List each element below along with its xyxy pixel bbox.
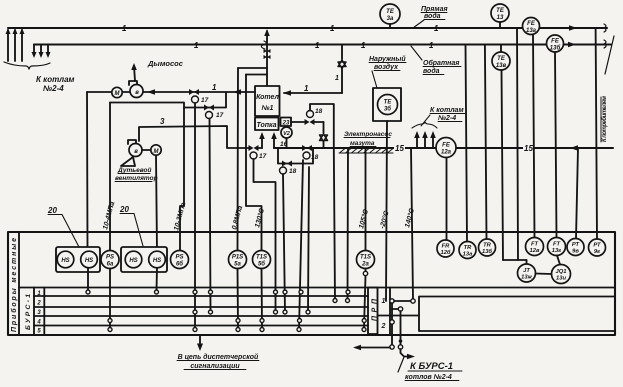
- svg-text:РТ: РТ: [572, 242, 580, 248]
- svg-text:JQ1: JQ1: [556, 269, 567, 275]
- instrument TR 13б: [479, 239, 496, 256]
- svg-text:9г: 9г: [594, 249, 600, 255]
- svg-text:FЕ: FЕ: [442, 143, 451, 149]
- boiler riser to line1: [266, 31, 268, 86]
- instrument T1S 5б: [253, 251, 271, 269]
- valve on boiler riser: [264, 49, 271, 53]
- svg-text:FR: FR: [442, 244, 451, 250]
- label 1 on line 1: [122, 24, 439, 33]
- instrument PS 6а: [101, 251, 119, 269]
- furnace Топка: [255, 118, 279, 131]
- svg-text:13и: 13и: [556, 276, 566, 282]
- instrument T1S 2а: [357, 251, 375, 269]
- wire 18в actuator to rows: [299, 160, 303, 330]
- motor M of smoke exhauster: [112, 87, 122, 97]
- instrument JT 13ж: [518, 264, 536, 282]
- svg-text:5: 5: [37, 329, 41, 335]
- svg-text:3а: 3а: [387, 16, 394, 22]
- svg-text:ТЕ: ТЕ: [384, 100, 393, 106]
- fuel temp tap 140°C to PRP: [411, 148, 413, 299]
- svg-text:Дымосос: Дымосос: [147, 59, 184, 68]
- svg-text:Дутьевой: Дутьевой: [117, 166, 151, 174]
- svg-text:1: 1: [212, 83, 217, 92]
- svg-text:1: 1: [429, 41, 434, 50]
- wire bypass to row3: [308, 167, 309, 312]
- svg-text:БУРС-1: БУРС-1: [25, 294, 32, 330]
- svg-text:В цепь диспетчерской: В цепь диспетчерской: [178, 353, 259, 361]
- svg-text:15: 15: [524, 144, 533, 153]
- svg-text:JТ: JТ: [523, 268, 530, 274]
- svg-text:V2: V2: [283, 131, 290, 137]
- svg-text:13б: 13б: [550, 45, 561, 52]
- label Прямая вода: [421, 6, 448, 20]
- svg-text:1: 1: [335, 75, 339, 82]
- svg-text:Т1S: Т1S: [360, 255, 371, 261]
- row wires: [44, 295, 368, 297]
- svg-text:1: 1: [382, 298, 386, 305]
- check valve gas: [323, 122, 325, 133]
- gas pipe with valve 18б: [291, 121, 304, 123]
- svg-text:2: 2: [381, 323, 386, 330]
- label Электронасос мазута: [344, 131, 392, 147]
- svg-text:вода: вода: [423, 67, 440, 75]
- svg-text:6а: 6а: [107, 262, 114, 268]
- label 20 first: [47, 206, 57, 215]
- svg-text:20: 20: [47, 206, 57, 215]
- svg-text:13в: 13в: [496, 63, 507, 69]
- blower motor M: [151, 145, 161, 155]
- valve 17в: [249, 145, 259, 151]
- label 16: [280, 141, 288, 148]
- svg-text:Наружный: Наружный: [369, 55, 406, 63]
- svg-text:10-4МПа: 10-4МПа: [102, 201, 116, 231]
- svg-text:13г: 13г: [552, 248, 562, 254]
- exhaust stack arrow: [134, 66, 135, 81]
- wire HS to row1: [87, 268, 89, 290]
- lower right box: [419, 297, 615, 332]
- svg-text:РТ: РТ: [593, 243, 601, 249]
- riser line2 to TR13б: [485, 45, 487, 240]
- svg-text:мазута: мазута: [350, 140, 375, 147]
- wire valve17в actuator to rows: [254, 159, 276, 312]
- PRP regulator box: [368, 288, 378, 335]
- svg-text:Р1S: Р1S: [232, 255, 243, 261]
- svg-text:3б: 3б: [384, 106, 391, 113]
- wire FT13г to JQ1: [557, 256, 560, 265]
- svg-text:1: 1: [194, 41, 199, 50]
- svg-text:5а: 5а: [234, 262, 241, 268]
- instrument FR 12б: [437, 240, 454, 257]
- svg-text:20: 20: [119, 205, 129, 214]
- svg-text:№2-4: №2-4: [43, 84, 64, 93]
- fuel tap wire to rows1-2: [347, 148, 350, 301]
- label 20 second: [119, 205, 129, 214]
- svg-text:1: 1: [304, 84, 309, 93]
- svg-text:№1: №1: [261, 105, 274, 112]
- label Приборы местные (vertical): [10, 238, 18, 332]
- dispatcher signal arrow: [199, 335, 201, 347]
- riser line2 to TR13а: [466, 45, 468, 242]
- svg-text:Прямая: Прямая: [421, 6, 448, 13]
- instrument TE 3а: [380, 4, 400, 24]
- arrow right end line2: [568, 42, 576, 48]
- pressure tap 10-3 МПа: [180, 108, 184, 251]
- svg-text:17: 17: [259, 153, 267, 160]
- svg-text:в: в: [134, 149, 138, 155]
- wire duct corner to HS: [86, 92, 89, 251]
- svg-text:12а: 12а: [441, 150, 452, 156]
- wire line 1 (direct water main): [8, 27, 607, 29]
- label К потребителям (vertical): [601, 95, 608, 142]
- svg-text:К потребителям: К потребителям: [601, 95, 608, 142]
- instrument FT 12в: [526, 238, 544, 256]
- valve 17а on duct: [189, 89, 199, 95]
- svg-text:К БУРС-1: К БУРС-1: [410, 361, 453, 372]
- svg-text:котлов №2-4: котлов №2-4: [405, 374, 452, 381]
- svg-text:12б: 12б: [440, 249, 450, 256]
- label Обратная вода: [423, 59, 459, 75]
- PRP output nodes: [390, 299, 394, 303]
- wire line 2 (return water main): [34, 43, 611, 45]
- instrument P1S 5а: [229, 251, 247, 269]
- label БУРС-1 (vertical): [25, 294, 32, 330]
- svg-text:13б: 13б: [482, 248, 492, 255]
- instrument TE 13в: [500, 45, 502, 53]
- instrument JQ1 13и: [552, 265, 571, 284]
- label Дымосос: [147, 59, 184, 68]
- label Дутьевой вентилятор: [115, 166, 158, 182]
- instrument FE 13а: [523, 18, 540, 35]
- brace к котлам: [4, 62, 50, 69]
- riser into furnace: [273, 136, 275, 148]
- instrument FT 13г: [548, 238, 566, 256]
- cell numbers 1-5: [36, 291, 41, 335]
- svg-text:18: 18: [289, 168, 297, 175]
- svg-text:ТR: ТR: [464, 245, 473, 251]
- instrument TE 3б in box: [373, 88, 401, 121]
- svg-text:9в: 9в: [572, 249, 579, 255]
- brace ends right: [604, 24, 606, 32]
- signal wire blower motor to panel: [156, 156, 157, 252]
- terminal dots on rows: [86, 290, 90, 294]
- instrument TR 13а: [459, 242, 476, 259]
- label К котлам №2-4: [36, 75, 75, 93]
- signal arrow left: [356, 347, 390, 349]
- instrument FE 12а: [436, 138, 456, 158]
- wire FE13б to FT13г: [555, 52, 557, 238]
- svg-text:НS: НS: [85, 258, 93, 264]
- smoke exhauster fan: [129, 81, 137, 85]
- svg-text:FТ: FТ: [531, 242, 539, 248]
- svg-text:вентилятор: вентилятор: [115, 175, 158, 182]
- svg-text:К котлам: К котлам: [430, 107, 464, 114]
- tap 130°C to T1S 5б: [246, 74, 267, 76]
- tap 0,8 МПа to P1S: [238, 67, 267, 69]
- fuel pressure tap to PT9в: [576, 148, 578, 239]
- svg-text:в: в: [135, 90, 139, 96]
- fuel bypass loop with valve 18д: [278, 148, 313, 164]
- break symbol on line2 crossing: [261, 41, 266, 49]
- wire gas loop to row2: [334, 148, 335, 301]
- svg-text:К котлам: К котлам: [36, 75, 75, 84]
- svg-text:17: 17: [216, 112, 224, 119]
- label К БУРС-1 котлов №2-4: [405, 361, 453, 381]
- svg-text:1: 1: [122, 24, 127, 33]
- signal wire valve 17а to panel: [194, 103, 196, 330]
- node arrows to boilers 2-4 from line 1: [7, 30, 9, 61]
- svg-text:ТЕ: ТЕ: [496, 8, 505, 14]
- svg-text:ТЕ: ТЕ: [497, 56, 506, 62]
- instrument PT 9в: [567, 239, 584, 256]
- wire HS2 to row1: [156, 268, 159, 290]
- svg-text:ТЕ: ТЕ: [386, 9, 395, 15]
- svg-text:НS: НS: [61, 258, 69, 264]
- instrument TE 13: [491, 4, 509, 22]
- svg-text:10-3МПа: 10-3МПа: [173, 202, 187, 232]
- signal wire valve 17б to panel: [210, 119, 211, 313]
- svg-text:воздух: воздух: [374, 63, 399, 71]
- svg-text:13а: 13а: [526, 28, 537, 34]
- panel outer box: [8, 232, 615, 335]
- feed water branch with check valve: [341, 45, 343, 60]
- svg-text:FЕ: FЕ: [527, 21, 536, 27]
- instrument PS 6б: [171, 251, 189, 269]
- wire 18д actuator to rows: [283, 174, 285, 312]
- svg-text:-20°С: -20°С: [378, 209, 391, 229]
- flue gas duct to smoke exhauster: [87, 91, 255, 93]
- svg-text:Приборы местные: Приборы местные: [10, 238, 18, 332]
- arrow to BURS: [401, 349, 410, 357]
- svg-text:13: 13: [497, 15, 504, 21]
- svg-text:140°С: 140°С: [403, 207, 416, 229]
- svg-text:4: 4: [36, 320, 41, 326]
- svg-text:13ж: 13ж: [521, 275, 532, 281]
- svg-text:0,8МПа: 0,8МПа: [231, 205, 244, 231]
- fuel oil line 15: [274, 147, 613, 149]
- svg-text:Обратная: Обратная: [423, 59, 459, 67]
- boiler Котел №1: [255, 86, 280, 116]
- arrow right end line1: [569, 25, 577, 31]
- leader к потребителям: [605, 36, 614, 74]
- blower air line 3: [139, 126, 249, 148]
- rows divider: [19, 287, 615, 289]
- svg-text:ТR: ТR: [483, 243, 492, 249]
- svg-text:2а: 2а: [361, 262, 369, 268]
- wire FE12а to FR12б: [446, 158, 448, 241]
- blower intake triangle: [121, 157, 135, 166]
- svg-text:РS: РS: [175, 255, 183, 261]
- svg-text:6б: 6б: [176, 261, 183, 268]
- svg-text:16: 16: [280, 141, 288, 148]
- duct bypass with valve 17б: [110, 93, 226, 108]
- valve actuator 18а: [307, 111, 314, 118]
- svg-text:Т1S: Т1S: [256, 255, 267, 261]
- wire TE13в to JT bus: [502, 70, 504, 260]
- label 15: [394, 142, 534, 153]
- svg-text:13а: 13а: [463, 252, 473, 258]
- valve 18в on fuel line: [302, 145, 312, 151]
- blower fan: [128, 140, 136, 144]
- svg-text:105°С: 105°С: [357, 208, 370, 230]
- igniter V2: [286, 126, 288, 128]
- svg-text:2: 2: [36, 301, 41, 307]
- svg-text:12в: 12в: [530, 248, 540, 254]
- svg-text:3: 3: [160, 117, 165, 126]
- svg-text:№2-4: №2-4: [437, 115, 456, 122]
- svg-text:1: 1: [330, 24, 335, 33]
- terminal cells column: [33, 288, 35, 336]
- svg-text:НS: НS: [153, 258, 161, 264]
- gas safety loop: [310, 104, 334, 148]
- riser line1 to PT9г: [596, 28, 597, 239]
- branch к котлам №2-4: [416, 135, 418, 148]
- label В цепь диспетчерской сигнализации: [178, 353, 259, 370]
- wire FE13а to FT12в: [533, 35, 535, 238]
- svg-text:НS: НS: [129, 258, 137, 264]
- label Наружный воздух: [369, 55, 406, 71]
- svg-text:Топка: Топка: [256, 122, 276, 129]
- instrument FE 13б: [547, 35, 564, 52]
- wire TE3б (-20C) to panel PRP: [386, 121, 387, 301]
- svg-text:5б: 5б: [258, 261, 265, 268]
- svg-text:17: 17: [201, 97, 209, 104]
- hand switch box HS-HS left: [56, 247, 100, 272]
- label -20°C (vertical): [378, 209, 391, 229]
- fuel temp tap 105°C to T1S 2а: [365, 148, 367, 251]
- svg-text:вода: вода: [424, 12, 441, 20]
- svg-text:18: 18: [315, 108, 323, 115]
- svg-text:FТ: FТ: [553, 242, 561, 248]
- JT bus: [503, 259, 527, 261]
- pressure tap 10-4 МПа: [109, 103, 111, 251]
- riser line1 to JT bus: [517, 28, 518, 260]
- hatching fuel pump leader: [340, 149, 393, 153]
- svg-text:ПРП: ПРП: [372, 298, 379, 321]
- svg-text:РS: РS: [106, 255, 114, 261]
- label 1 on line 2: [194, 41, 434, 50]
- svg-text:FЕ: FЕ: [551, 39, 560, 45]
- gas line 23 box: [281, 118, 292, 127]
- svg-text:15: 15: [395, 144, 404, 153]
- instrument PT 9г: [589, 239, 606, 256]
- panel left divider: [18, 232, 20, 335]
- svg-text:1: 1: [434, 24, 439, 33]
- svg-text:Электронасос: Электронасос: [344, 131, 392, 138]
- svg-text:130°С: 130°С: [253, 207, 266, 229]
- hand switch box HS-HS right: [121, 247, 167, 272]
- svg-text:сигнализации: сигнализации: [190, 363, 240, 370]
- svg-text:Котел: Котел: [256, 94, 279, 101]
- svg-text:1: 1: [315, 41, 320, 50]
- svg-text:1: 1: [361, 41, 366, 50]
